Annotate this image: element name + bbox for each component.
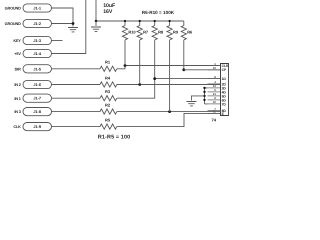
wire +5V rail (J1-4 up) [52,0,86,54]
connector pin J1-6 (IN 2) [23,80,52,88]
junction bus pin 5 [203,91,205,93]
junction rail/R10 [124,20,126,22]
node +5V pull-up rail [96,20,184,22]
pin 4 (2D) of U1 [208,83,221,85]
svg-text:J1-2: J1-2 [33,21,41,26]
connector pin J1-1 (GROUND) [23,4,52,12]
junction R8/IN1 branch [153,77,156,80]
svg-text:R10: R10 [128,29,136,34]
ground GND2 [91,27,101,31]
junction rail/C1/ground [95,20,98,23]
wire CLK to pin 11 [117,113,221,126]
svg-text:R1: R1 [105,60,111,65]
pin 9 (1D) of U1 [208,78,221,80]
svg-text:J1-9: J1-9 [33,124,41,129]
svg-text:J1-8: J1-8 [33,109,41,114]
resistor R3 (100 ohm series) [52,97,101,99]
wire J1-1 to ground [52,8,74,24]
wire R9 tail [169,40,171,112]
wire IN 3 to pin 7 [117,111,221,112]
svg-text:GROUND: GROUND [5,7,22,11]
svg-text:J1-4: J1-4 [33,51,41,56]
ground GND1 [68,28,78,32]
junction R6/pin10 [182,68,185,71]
junction J1-2/ground [72,22,75,25]
resistor R5 (100 ohm series) [52,126,101,128]
svg-text:7D: 7D [222,102,227,106]
svg-text:KEY: KEY [13,39,21,43]
pin 13 (3D) of U1 [208,87,221,89]
svg-text:R6-R10 = 100K: R6-R10 = 100K [142,10,175,15]
resistor R8 (100K pull-up) [154,21,156,26]
pin 7 (8D) of U1 [208,110,221,112]
svg-text:R4: R4 [105,75,111,80]
junction rail/R9 [168,20,170,22]
pin 6 (6D) of U1 [208,99,221,101]
svg-text:J1-5: J1-5 [33,66,41,71]
svg-text:R8: R8 [158,29,164,34]
wire R8 tail [154,40,156,79]
pin 11 (E) of U1 [208,112,221,114]
junction rail/R7 [139,20,141,22]
junction bus pin 6 [203,99,205,101]
svg-text:J1-6: J1-6 [33,82,41,87]
wire C1 to ground [95,21,97,26]
resistor R7 (100K pull-up) [139,21,141,26]
wire IN 2 to pin 4 [117,83,221,86]
pin 14 (5D) of U1 [208,95,221,97]
ground bus wire (pins 13,5,14,6,12) [204,88,206,104]
pin 12 (7D) of U1 [208,103,221,105]
svg-text:CP: CP [222,68,227,72]
svg-text:1D: 1D [222,77,227,81]
connector pin J1-3 (KEY) [23,36,52,44]
svg-text:J1-3: J1-3 [33,38,41,43]
svg-text:R1-R5 = 100: R1-R5 = 100 [98,134,130,140]
connector pin J1-4 (+5V) [23,49,52,57]
resistor R4 (100 ohm series) [52,84,101,86]
junction R10/DIR/pin1 [124,64,127,67]
svg-text:DIR: DIR [15,67,22,71]
wire R7 tail [139,40,141,85]
connector pin J1-7 (IN 1) [23,94,52,102]
wire R6 tail to pin 10 [183,40,185,70]
junction bus pin 12 [203,87,205,89]
wire IN 1 riser to pin 9 [117,79,221,99]
svg-text:IN 1: IN 1 [14,97,20,101]
junction bus pin 14 [203,95,205,97]
wire DIR to pin 1 (jog up) [117,66,221,69]
pin 5 (4D) of U1 [208,91,221,93]
resistor R10 (100K pull-up) [124,21,126,26]
svg-text:R3: R3 [105,89,111,94]
junction R9/IN3 [168,110,171,113]
junction rail/R8 [154,20,156,22]
IC U1 (74-series) body [221,64,229,116]
connector pin J1-2 (GROUND) [23,19,52,27]
wire R10 tail [124,40,126,66]
svg-text:R7: R7 [143,29,149,34]
wire KEY stub (J1-3, no connect) [52,40,63,42]
resistor R9 (100K pull-up) [169,21,171,26]
wire bus to ground [192,96,205,101]
svg-text:R9: R9 [173,29,179,34]
svg-text:R6: R6 [187,29,193,34]
resistor R6 (100K pull-up) [183,21,185,26]
connector pin J1-5 (DIR) [23,65,52,73]
svg-text:12: 12 [213,100,217,104]
resistor R2 (100 ohm series) [52,111,101,113]
svg-text:J1-1: J1-1 [33,6,41,11]
wire J1-2 to ground [52,24,74,27]
svg-text:IN 2: IN 2 [14,83,20,87]
capacitor C1 lead (10uF 16V) [95,0,97,21]
junction R7/IN2 [138,83,141,86]
svg-text:R2: R2 [105,102,111,107]
svg-text:J1-7: J1-7 [33,96,41,101]
resistor R1 (100 ohm series) [52,68,101,70]
connector pin J1-8 (IN 3) [23,108,52,116]
svg-text:CLK: CLK [13,125,21,129]
svg-text:+5V: +5V [14,52,21,56]
ground GND3 [187,102,197,106]
pin 10 (CP) of U1 [208,69,221,71]
svg-text:16V: 16V [103,9,113,15]
connector pin J1-9 (CLK) [23,123,52,131]
svg-text:GROUND: GROUND [5,22,22,26]
svg-text:74: 74 [212,118,217,123]
pin 1 (CLR) of U1 [208,65,221,67]
svg-text:IN 3: IN 3 [14,110,20,114]
svg-text:R5: R5 [105,117,111,122]
